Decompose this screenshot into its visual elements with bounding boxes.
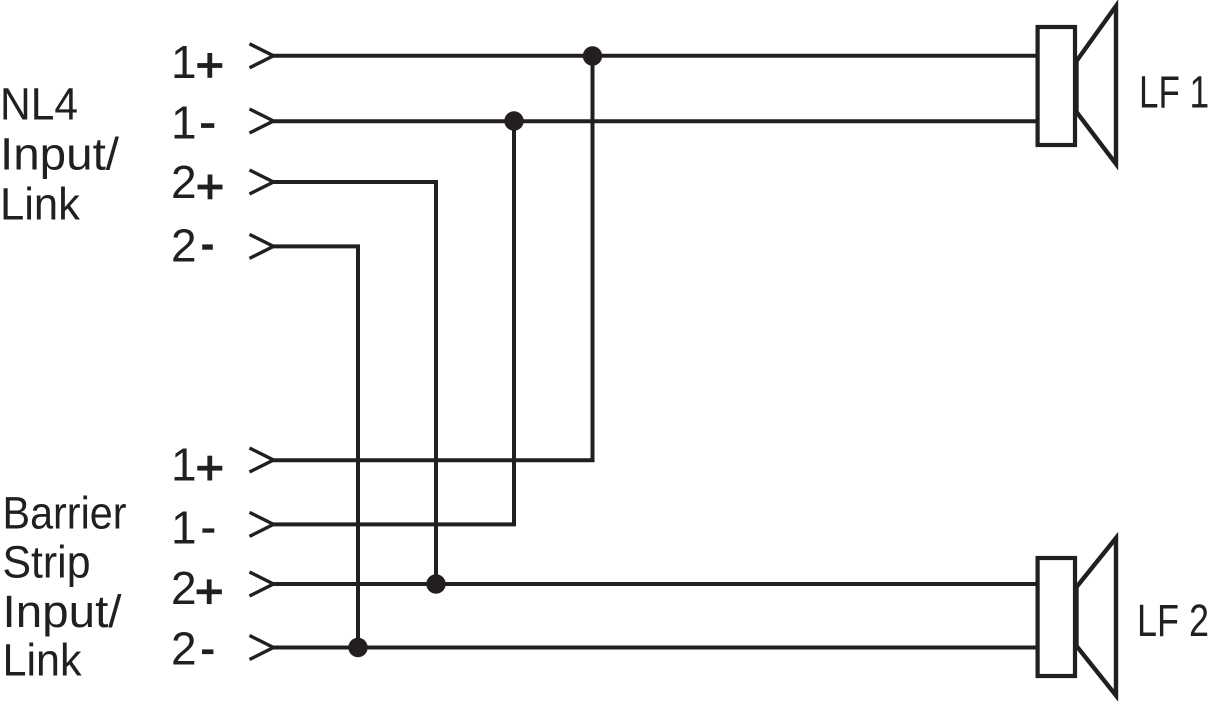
svg-text:1: 1 <box>171 96 197 148</box>
speaker LF2 horn cone <box>1077 538 1117 696</box>
label Barrier Strip Input/Link <box>3 487 127 685</box>
junction dot NL4 1+ / Barrier 1+ <box>583 46 602 65</box>
svg-text:Barrier: Barrier <box>3 487 127 538</box>
svg-text:1: 1 <box>171 36 197 88</box>
connector arrow Barrier 2- <box>250 636 274 660</box>
pin label 2+ (Barrier Strip) <box>171 562 222 614</box>
pin label 2+ (NL4) <box>171 156 223 208</box>
connector arrow NL4 2+ <box>250 170 274 194</box>
svg-text:NL4: NL4 <box>0 79 78 130</box>
pin label 2- (NL4) <box>171 220 213 272</box>
wire NL4 2+ down to Barrier 2+ junction <box>272 182 436 584</box>
speaker LF2 driver box <box>1038 558 1075 676</box>
junction dot NL4 2- / Barrier 2- <box>348 638 367 657</box>
svg-text:2: 2 <box>171 562 197 614</box>
connector arrow NL4 1- <box>250 109 274 133</box>
pin label 1+ (Barrier Strip) <box>171 439 222 491</box>
speaker LF1 horn cone <box>1077 6 1117 164</box>
wire NL4 1- to LF1 bottom <box>272 119 1038 123</box>
svg-text:2: 2 <box>171 623 197 675</box>
svg-text:1: 1 <box>171 501 197 553</box>
speaker LF1 driver box <box>1038 27 1075 145</box>
label NL4 Input/Link <box>0 79 120 230</box>
svg-text:Link: Link <box>3 635 82 686</box>
svg-text:Link: Link <box>0 179 80 230</box>
svg-text:Input/: Input/ <box>3 586 123 637</box>
wire NL4 1+ to LF1 top <box>272 54 1038 58</box>
svg-text:Strip: Strip <box>3 536 91 587</box>
wire Barrier 1+ up to NL4 1+ junction <box>272 56 593 460</box>
wire Barrier 2+ to LF2 top <box>272 582 1038 586</box>
svg-text:Input/: Input/ <box>0 129 120 180</box>
pin label 2- (Barrier Strip) <box>171 623 213 675</box>
pin label 1+ (NL4) <box>171 36 222 88</box>
label LF 1 <box>1139 67 1209 118</box>
connector arrow NL4 2- <box>250 234 274 258</box>
junction dot NL4 1- / Barrier 1- <box>504 111 523 130</box>
svg-text:LF 2: LF 2 <box>1137 595 1209 646</box>
svg-text:1: 1 <box>171 439 197 491</box>
connector arrow Barrier 1- <box>250 512 274 536</box>
wire Barrier 2- to LF2 bottom <box>272 646 1038 650</box>
svg-text:LF 1: LF 1 <box>1139 67 1209 118</box>
svg-text:2: 2 <box>171 220 197 272</box>
svg-text:2: 2 <box>171 156 197 208</box>
junction dot NL4 2+ / Barrier 2+ <box>426 574 445 593</box>
pin label 1- (NL4) <box>171 96 214 148</box>
connector arrow Barrier 1+ <box>250 448 274 472</box>
wire Barrier 1- up to NL4 1- junction <box>272 121 514 524</box>
wire NL4 2- down to Barrier 2- junction <box>272 246 358 647</box>
connector arrow NL4 1+ <box>250 44 274 68</box>
pin label 1- (Barrier Strip) <box>171 501 214 553</box>
connector arrow Barrier 2+ <box>250 572 274 596</box>
